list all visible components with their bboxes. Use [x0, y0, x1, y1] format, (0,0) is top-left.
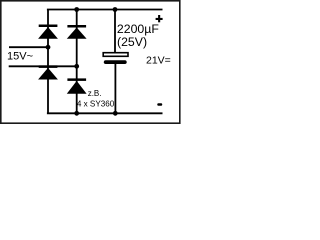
diode bottom-left	[38, 65, 58, 79]
wire capacitor top lead	[114, 10, 116, 54]
plus terminal	[156, 15, 163, 22]
diode top-left	[38, 25, 58, 39]
capacitor 2200uF electrolytic, positive plate	[103, 53, 128, 57]
capacitor 2200uF electrolytic, negative plate	[104, 60, 127, 64]
junction bottom rail / right diode branch	[74, 111, 79, 116]
svg-text:2200µF: 2200µF	[117, 22, 159, 36]
wire bottom rail (- rail)	[47, 112, 163, 114]
svg-text:21V=: 21V=	[146, 54, 171, 66]
svg-text:15V~: 15V~	[7, 50, 33, 62]
wire right diode branch	[76, 10, 78, 114]
diode bottom-right	[67, 78, 87, 93]
svg-text:4 x SY360: 4 x SY360	[77, 99, 115, 108]
svg-text:(25V): (25V)	[117, 35, 147, 49]
wire AC input upper (15V~)	[9, 46, 48, 48]
junction AC lower / right branch	[74, 64, 79, 69]
wire capacitor bottom lead	[114, 64, 116, 114]
svg-text:z.B.: z.B.	[88, 89, 102, 98]
wire top rail (+ rail)	[47, 9, 163, 11]
wire AC input lower (15V~)	[9, 65, 77, 67]
junction AC upper / left branch	[46, 45, 51, 50]
diode top-right	[67, 25, 87, 39]
minus terminal	[157, 103, 162, 105]
junction top rail / capacitor	[113, 7, 118, 12]
junction top rail / right diode branch	[74, 7, 79, 12]
wire left diode branch	[47, 10, 49, 114]
junction bottom rail / capacitor	[113, 111, 118, 116]
